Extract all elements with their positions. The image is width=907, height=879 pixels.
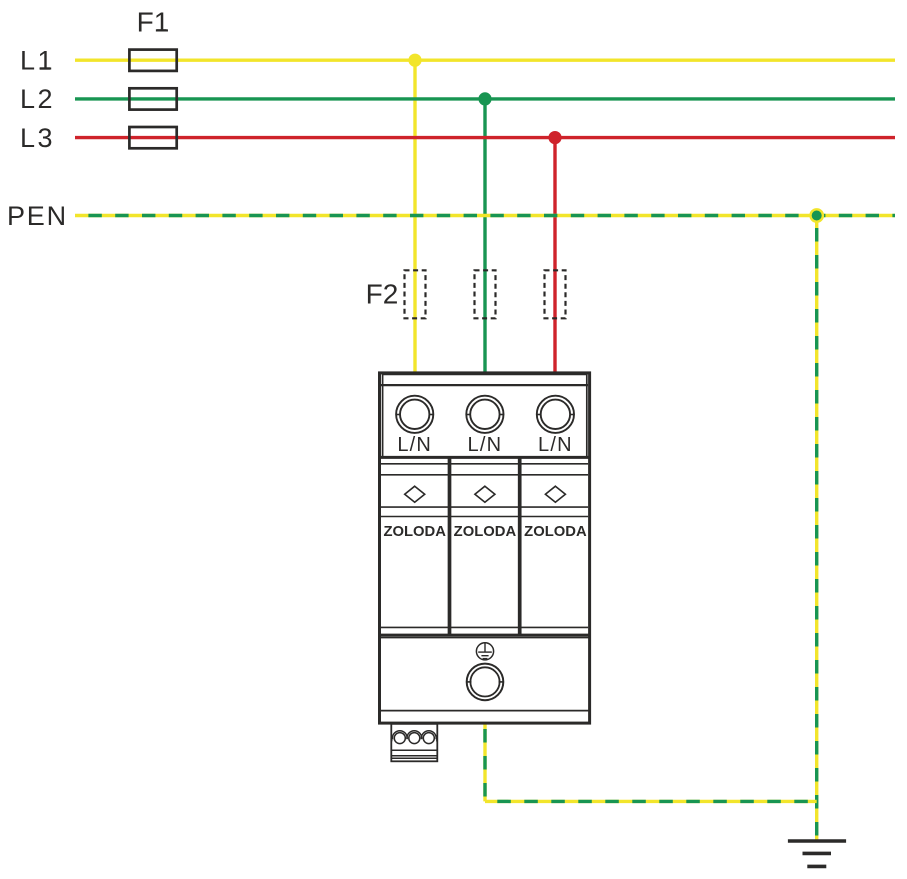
wire: L3 drop (red vertical): [553, 138, 556, 374]
SPD: module bottom thin line: [381, 626, 588, 628]
SPD: module top band line 1: [381, 463, 588, 465]
fuse F2c (optional, dashed, L3 drop): [545, 270, 566, 318]
svg-text:F2: F2: [366, 279, 399, 310]
svg-text:L/N: L/N: [468, 434, 503, 456]
ground symbol: [788, 841, 846, 866]
node: PEN tap junction: [809, 208, 824, 223]
node: L3 tap junction: [548, 131, 561, 144]
svg-text:ZOLODA: ZOLODA: [383, 524, 446, 540]
wire: PE horizontal run to ground drop (yellow/green dashed): [485, 800, 817, 803]
label L1: [20, 46, 55, 76]
node: L2 tap junction: [478, 92, 491, 105]
wire: PE drop from PEN bus to ground (yellow/green dashed vertical): [815, 216, 818, 842]
SPD U1: top strip line: [381, 384, 588, 386]
SPD: earth terminal big circle: [466, 664, 504, 701]
fuse F1a (L1): [129, 50, 176, 71]
svg-text:L/N: L/N: [397, 434, 432, 456]
SPD terminal circle 3: [536, 396, 574, 433]
SPD: status window diamond 1: [405, 486, 425, 502]
SPD U1: terminal area inner box: [383, 374, 587, 457]
fuse F1c (L3): [129, 127, 176, 148]
SPD: module top band line 2: [381, 474, 588, 476]
wire: PEN bus (yellow/green dashed): [75, 214, 895, 217]
fuse F2a (optional, dashed, L1 drop): [405, 270, 426, 318]
wire: PE from SPD earth terminal down (yellow/green dashed vertical): [483, 723, 486, 801]
wire: L3 phase bus (red): [75, 136, 895, 139]
svg-text:F1: F1: [137, 7, 170, 38]
svg-text:ZOLODA: ZOLODA: [524, 524, 587, 540]
fuse F2b (optional, dashed, L2 drop): [475, 270, 496, 318]
fuse F1b (L2): [129, 88, 176, 109]
node: L1 tap junction: [408, 54, 421, 67]
SPD terminal circle 2: [466, 396, 504, 433]
svg-text:L3: L3: [20, 123, 55, 153]
svg-text:PEN: PEN: [7, 201, 68, 231]
SPD: module separator 2: [518, 457, 522, 635]
SPD U1: outer body: [380, 373, 590, 723]
SPD: diamond row bottom line 1: [381, 506, 588, 508]
SPD terminal circle 1: [396, 396, 434, 433]
SPD: module bottom edge: [380, 634, 590, 637]
wire: L1 phase bus (yellow): [75, 59, 895, 62]
SPD: status window diamond 3: [545, 486, 565, 502]
SPD: PE symbol (circle with earth): [476, 643, 493, 660]
SPD: status window diamond 2: [475, 486, 495, 502]
wire: L2 drop (green vertical): [483, 99, 486, 374]
wire: L2 phase bus (green): [75, 97, 895, 100]
svg-text:ZOLODA: ZOLODA: [454, 524, 517, 540]
SPD: base bottom band line: [380, 710, 590, 712]
svg-text:L/N: L/N: [538, 434, 573, 456]
SPD: bottom 3-pole connector block: [391, 724, 437, 762]
svg-text:L2: L2: [20, 84, 55, 114]
svg-text:L1: L1: [20, 46, 55, 76]
SPD: terminal area bottom line: [380, 456, 590, 459]
wire: L1 drop (yellow vertical): [413, 60, 416, 374]
SPD: base top edge: [380, 636, 590, 638]
SPD: diamond row bottom line 2: [381, 516, 588, 518]
SPD: module separator 1: [448, 457, 452, 635]
label F1: [137, 7, 170, 38]
